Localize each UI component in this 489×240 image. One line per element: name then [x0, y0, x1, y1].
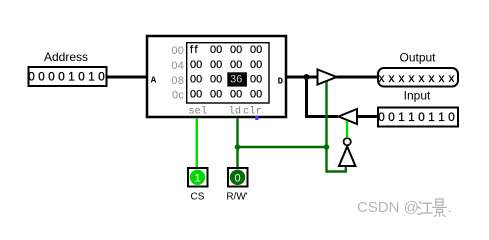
- svg-text:00: 00: [210, 59, 222, 71]
- svg-text:x: x: [409, 71, 415, 85]
- svg-text:36: 36: [230, 74, 242, 86]
- watermark CSDN @jiangjing: [357, 199, 452, 217]
- svg-text:00: 00: [171, 45, 184, 57]
- svg-text:0: 0: [98, 70, 105, 84]
- svg-text:.: .: [448, 199, 452, 216]
- wire Input pin to input buffer: [357, 115, 378, 118]
- RAM contents table frame: [187, 43, 269, 103]
- svg-text:x: x: [399, 71, 405, 85]
- svg-text:08: 08: [171, 75, 184, 87]
- wire NOT output to input buffer enable (1): [346, 120, 348, 138]
- svg-text:1: 1: [398, 110, 405, 124]
- clr floating stub (blue): [255, 116, 258, 120]
- wire junction to output buffer: [307, 76, 319, 79]
- svg-text:x: x: [439, 71, 445, 85]
- svg-text:Address: Address: [44, 50, 88, 64]
- output pin Output (floating x's): [378, 68, 458, 87]
- watermark glyph jing: [433, 199, 447, 217]
- svg-text:x: x: [379, 71, 385, 85]
- svg-text:x: x: [429, 71, 435, 85]
- svg-text:0: 0: [418, 110, 425, 124]
- svg-text:00: 00: [190, 88, 202, 100]
- wire enable of output buffer (0): [325, 81, 327, 148]
- svg-text:04: 04: [171, 60, 184, 72]
- wire ld to R/W' (logic 0, dark green): [236, 118, 238, 168]
- svg-text:D: D: [278, 76, 284, 86]
- wire control horizontal (0): [238, 146, 327, 148]
- svg-text:00: 00: [210, 88, 222, 100]
- svg-text:00: 00: [250, 59, 262, 71]
- node junction at D: [304, 74, 310, 80]
- svg-text:CS: CS: [191, 192, 205, 203]
- svg-text:0: 0: [58, 70, 65, 84]
- svg-text:A: A: [151, 75, 157, 85]
- svg-text:x: x: [449, 71, 455, 85]
- junction at ld wire: [235, 144, 241, 150]
- svg-text:1: 1: [68, 70, 75, 84]
- RAM pin labels sel ld clr: [188, 106, 262, 118]
- svg-text:00: 00: [250, 74, 262, 86]
- RAM memory values: [190, 44, 262, 100]
- input pin CS: [188, 168, 208, 187]
- svg-text:clr: clr: [243, 106, 262, 118]
- wire to NOT gate input (0): [327, 147, 346, 172]
- svg-text:00: 00: [230, 44, 242, 56]
- svg-text:00: 00: [190, 59, 202, 71]
- svg-text:0: 0: [38, 70, 45, 84]
- RAM U1: [147, 36, 286, 117]
- svg-text:00: 00: [250, 88, 262, 100]
- svg-text:0: 0: [378, 110, 385, 124]
- RAM highlighted cell 36: [227, 72, 247, 86]
- svg-text:0: 0: [234, 172, 240, 184]
- svg-text:0: 0: [28, 70, 35, 84]
- wire D port to junction: [285, 76, 307, 79]
- svg-text:0: 0: [388, 110, 395, 124]
- RAM row address labels: [171, 45, 184, 101]
- svg-text:1: 1: [88, 70, 95, 84]
- wire junction down and to input buffer output: [307, 77, 339, 117]
- watermark glyph jiang: [418, 202, 432, 215]
- buffer U2 (output driver, right-pointing): [318, 70, 337, 85]
- svg-text:00: 00: [210, 44, 222, 56]
- svg-text:00: 00: [230, 88, 242, 100]
- svg-text:1: 1: [194, 172, 200, 184]
- svg-text:00: 00: [230, 59, 242, 71]
- svg-text:0c: 0c: [172, 90, 184, 102]
- svg-text:sel: sel: [188, 106, 207, 118]
- wire sel to CS (logic 1, bright green): [196, 118, 198, 168]
- svg-text:x: x: [389, 71, 395, 85]
- input pin Address: [29, 67, 107, 86]
- svg-text:ff: ff: [190, 44, 199, 56]
- svg-text:00: 00: [250, 44, 262, 56]
- svg-text:Output: Output: [399, 51, 436, 65]
- wire buffer output to Output pin: [337, 76, 379, 79]
- input pin Input: [378, 108, 458, 127]
- svg-text:1: 1: [438, 110, 445, 124]
- svg-text:1: 1: [428, 110, 435, 124]
- junction at output buffer enable branch: [324, 144, 330, 150]
- input pin R/W': [228, 168, 248, 187]
- svg-text:Input: Input: [404, 89, 431, 103]
- wire address bus: [107, 76, 149, 79]
- svg-text:R/W': R/W': [226, 192, 247, 203]
- svg-text:0: 0: [78, 70, 85, 84]
- svg-text:00: 00: [210, 74, 222, 86]
- svg-text:0: 0: [448, 110, 455, 124]
- buffer U4 (input driver, left-pointing): [339, 109, 358, 124]
- svg-text:0: 0: [48, 70, 55, 84]
- svg-text:1: 1: [408, 110, 415, 124]
- svg-text:ld: ld: [229, 106, 242, 118]
- NOT gate U3 (pointing up): [339, 147, 355, 167]
- svg-text:CSDN @: CSDN @: [357, 199, 419, 216]
- svg-text:x: x: [419, 71, 425, 85]
- svg-text:00: 00: [190, 74, 202, 86]
